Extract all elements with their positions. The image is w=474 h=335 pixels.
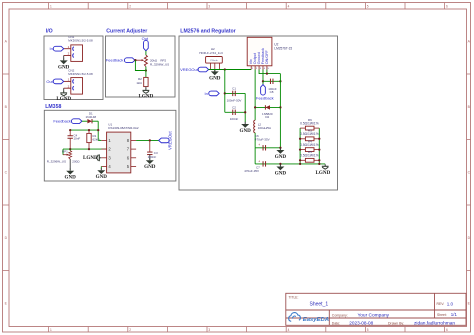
svg-text:I/O: I/O [46, 28, 53, 34]
svg-text:1N4148: 1N4148 [86, 115, 97, 119]
svg-text:1.0: 1.0 [447, 301, 454, 306]
svg-text:Feedback: Feedback [256, 96, 274, 101]
svg-text:62kΩ: 62kΩ [93, 138, 101, 142]
svg-text:1: 1 [252, 68, 254, 70]
svg-text:100nF-50V: 100nF-50V [227, 99, 242, 103]
svg-text:0.5Ω/1W/1%: 0.5Ω/1W/1% [300, 121, 319, 125]
svg-text:Company:: Company: [332, 313, 348, 317]
svg-text:In: In [49, 46, 52, 51]
svg-text:Out: Out [46, 79, 53, 84]
svg-text:GND: GND [209, 75, 221, 81]
svg-text:MKDSN1.5/2-5.08: MKDSN1.5/2-5.08 [68, 72, 93, 76]
svg-text:1/1: 1/1 [451, 312, 458, 317]
svg-text:GND: GND [144, 164, 156, 170]
svg-text:HDR-F-2.54_1x3: HDR-F-2.54_1x3 [199, 51, 223, 55]
svg-text:TITLE:: TITLE: [289, 296, 299, 300]
svg-text:5: 5 [367, 328, 369, 332]
svg-text:100uH/5A: 100uH/5A [258, 126, 271, 130]
svg-text:D: D [5, 236, 8, 240]
svg-text:R_3296W_US: R_3296W_US [47, 160, 66, 164]
svg-text:10nF: 10nF [73, 137, 80, 141]
svg-text:5: 5 [367, 4, 369, 8]
svg-text:100nF: 100nF [148, 155, 157, 159]
svg-text:Sheet:: Sheet: [437, 313, 447, 317]
svg-text:3: 3 [208, 328, 210, 332]
svg-text:C2: C2 [232, 106, 236, 110]
svg-text:LM2576T-15: LM2576T-15 [274, 46, 292, 50]
svg-text:In: In [205, 91, 208, 96]
svg-text:C: C [5, 170, 8, 174]
svg-text:4: 4 [288, 4, 290, 8]
svg-text:LGND: LGND [83, 155, 98, 161]
svg-text:C8: C8 [270, 90, 274, 94]
svg-text:3: 3 [260, 68, 262, 70]
svg-text:LM358: LM358 [45, 104, 61, 110]
svg-text:200Ω: 200Ω [72, 160, 80, 164]
svg-text:zidan.fadlurrohman: zidan.fadlurrohman [414, 321, 455, 327]
svg-text:B: B [5, 105, 8, 109]
svg-text:GND: GND [65, 175, 77, 181]
svg-text:3: 3 [208, 4, 210, 8]
svg-text:470uF-35V: 470uF-35V [255, 138, 270, 142]
svg-text:VREGOut: VREGOut [180, 67, 199, 72]
svg-text:GND: GND [240, 128, 252, 134]
svg-text:2: 2 [129, 4, 131, 8]
svg-text:ON/OFF: ON/OFF [265, 50, 269, 65]
svg-text:0.5Ω/1W/1%: 0.5Ω/1W/1% [300, 132, 319, 136]
svg-text:4: 4 [264, 68, 266, 70]
svg-text:EasyEDA: EasyEDA [303, 317, 329, 323]
svg-text:Sheet_1: Sheet_1 [310, 301, 329, 307]
svg-text:REV:: REV: [437, 302, 445, 306]
svg-text:470uF-35V: 470uF-35V [244, 169, 259, 173]
svg-text:5: 5 [268, 68, 270, 70]
svg-text:R_3296W_US: R_3296W_US [150, 62, 169, 66]
svg-text:LGND: LGND [139, 94, 154, 100]
svg-text:1: 1 [50, 328, 52, 332]
svg-text:Date:: Date: [332, 321, 340, 325]
svg-text:GND: GND [275, 171, 287, 177]
svg-text:GND: GND [96, 174, 108, 180]
svg-text:LGND: LGND [56, 96, 71, 102]
svg-text:LM2576 and Regulator: LM2576 and Regulator [180, 28, 235, 34]
svg-text:6: 6 [446, 328, 448, 332]
svg-text:Out: Out [142, 36, 149, 41]
svg-text:DS1309-08AT/NR-0A2: DS1309-08AT/NR-0A2 [108, 126, 139, 130]
svg-text:2: 2 [129, 328, 131, 332]
svg-text:2: 2 [256, 68, 258, 70]
svg-text:P1-In-In: P1-In-In [210, 60, 217, 62]
svg-text:Drawn By:: Drawn By: [388, 321, 404, 325]
svg-text:GND: GND [275, 154, 287, 160]
svg-text:VREGOut: VREGOut [167, 131, 172, 150]
svg-text:1kΩ: 1kΩ [136, 81, 142, 85]
svg-text:RP1: RP1 [62, 150, 68, 154]
svg-text:100nF: 100nF [230, 117, 239, 121]
svg-text:Your Company: Your Company [358, 313, 390, 319]
svg-text:Feedback: Feedback [106, 58, 124, 63]
svg-text:2023-08-08: 2023-08-08 [349, 321, 373, 326]
svg-text:E: E [5, 301, 8, 305]
svg-text:4: 4 [288, 328, 290, 332]
svg-text:0.5Ω/1W/1%: 0.5Ω/1W/1% [300, 154, 319, 158]
svg-text:C1: C1 [232, 87, 236, 91]
svg-text:D2: D2 [265, 115, 269, 119]
svg-text:A: A [5, 39, 8, 43]
svg-text:+: + [258, 159, 260, 163]
svg-text:0.5Ω/1W/1%: 0.5Ω/1W/1% [300, 143, 319, 147]
svg-text:MKDSN1.5/2-5.08: MKDSN1.5/2-5.08 [68, 39, 93, 43]
svg-text:+: + [258, 143, 260, 147]
svg-text:Feedback: Feedback [53, 119, 71, 124]
svg-text:LGND: LGND [316, 170, 331, 176]
svg-text:Current Adjuster: Current Adjuster [106, 28, 147, 34]
svg-text:1: 1 [50, 4, 52, 8]
svg-text:6: 6 [446, 4, 448, 8]
